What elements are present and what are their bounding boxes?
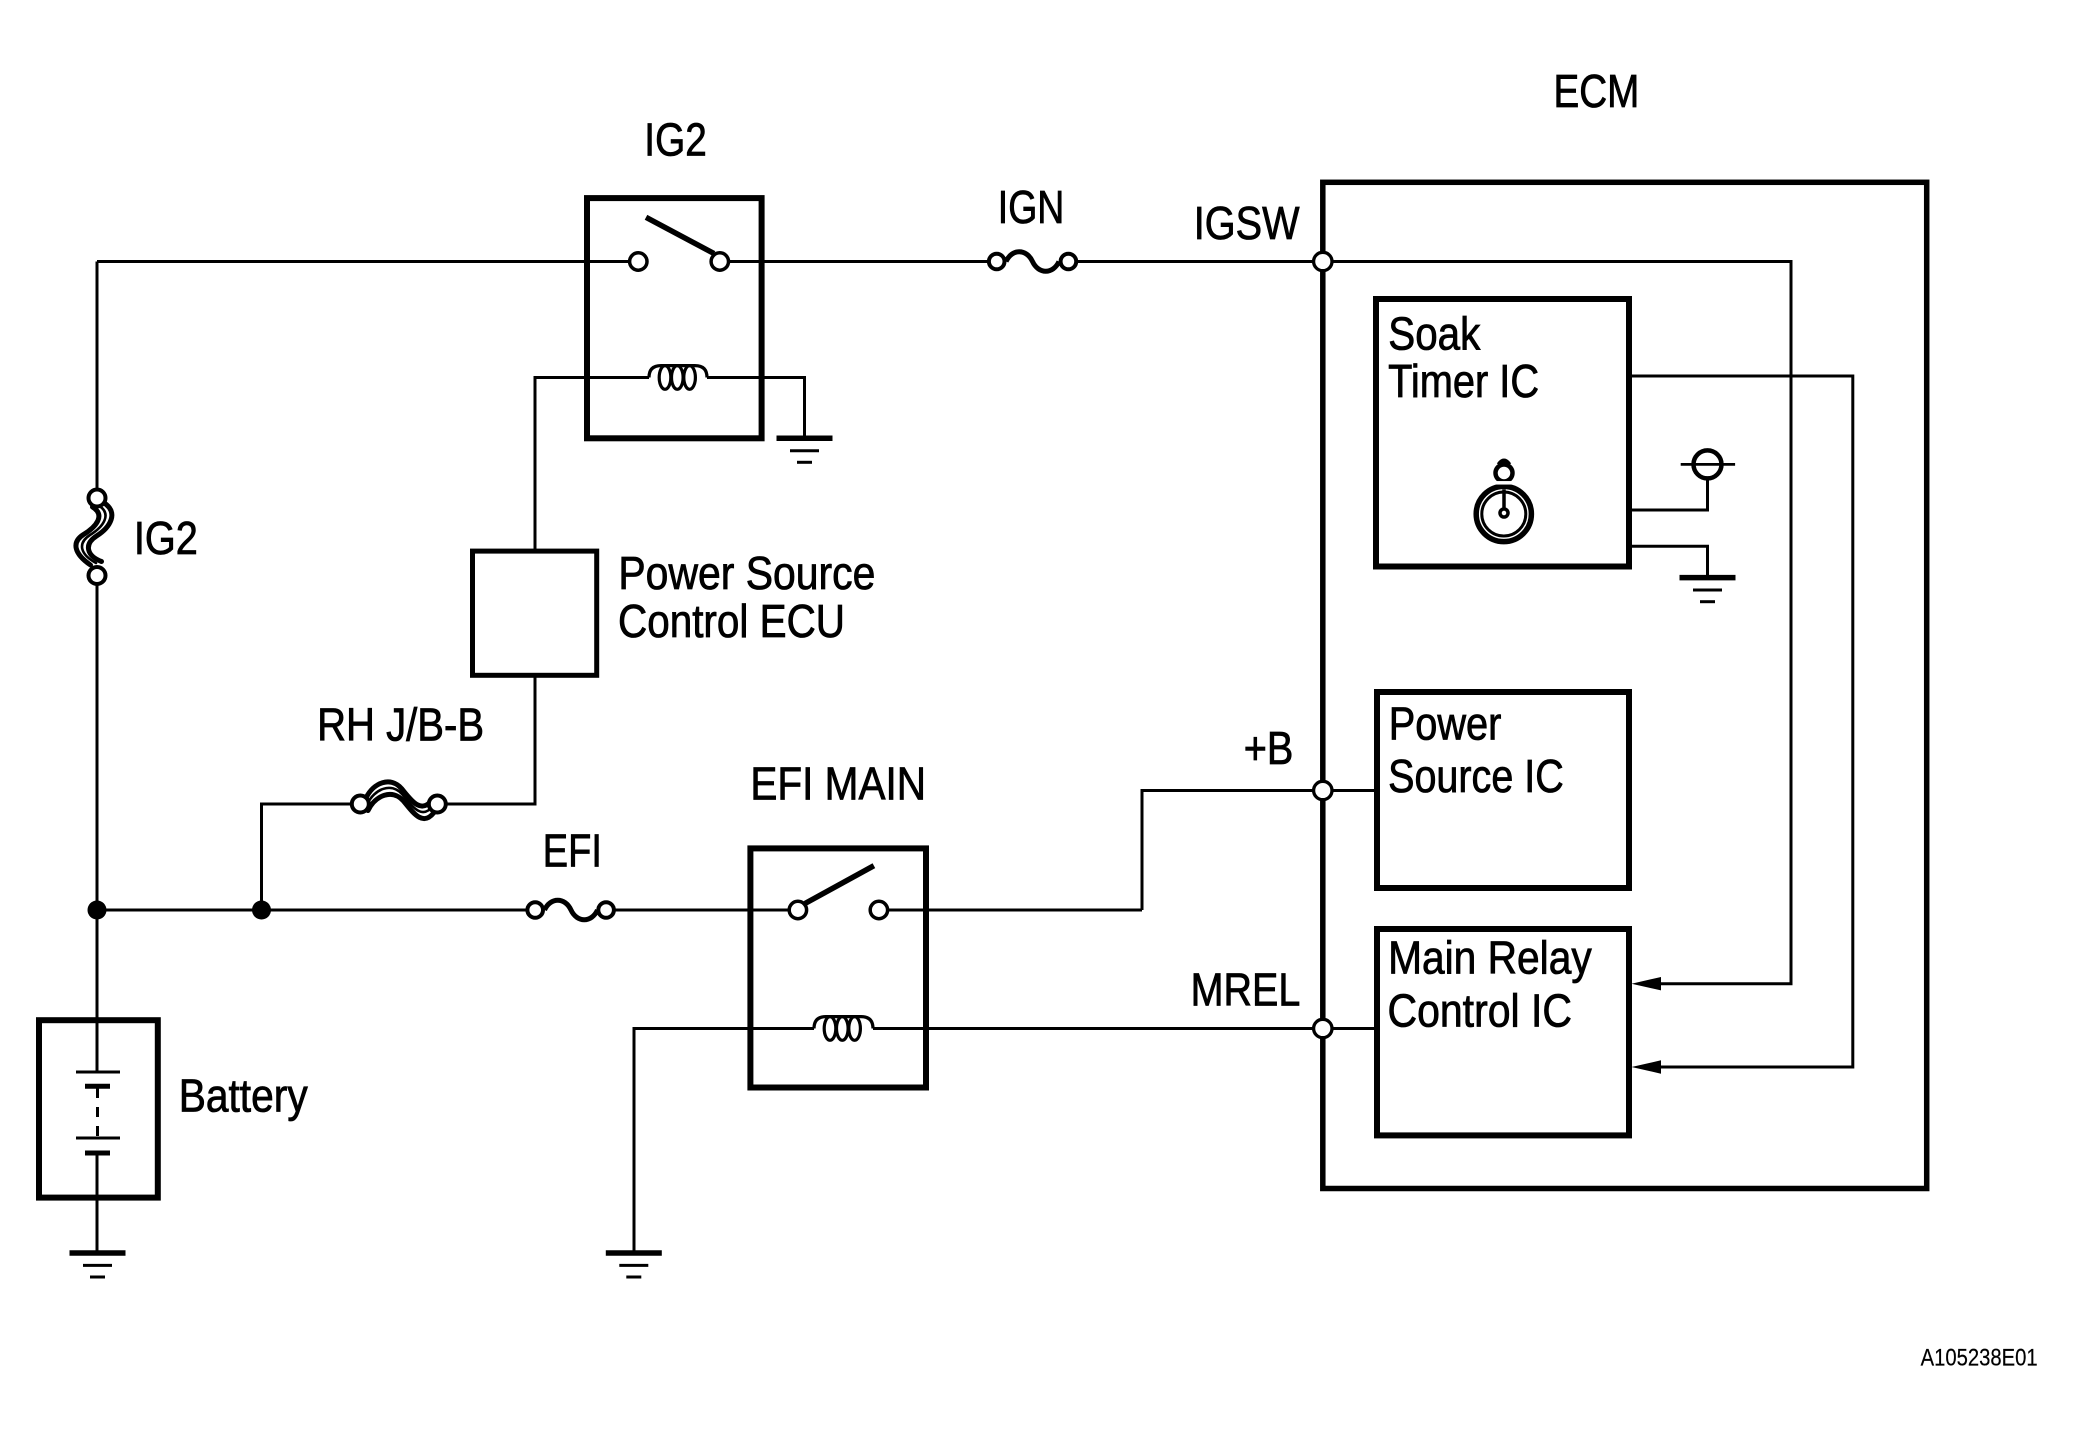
junction dot (left rail / battery bus) (88, 901, 107, 920)
wire top horizontal: left rail to IG2 relay left terminal (97, 260, 632, 263)
svg-text:EFI MAIN: EFI MAIN (750, 757, 926, 809)
svg-text:Source IC: Source IC (1388, 750, 1564, 802)
EFI fuse (545, 900, 598, 920)
wire RH J/B-B to Power Source Control ECU (447, 675, 535, 804)
wire bottom horizontal: battery rail to EFI fuse (97, 909, 530, 912)
Power Source Control ECU box (473, 551, 597, 675)
arrow into Main Relay Control IC (lower) (1632, 1060, 1662, 1073)
wire EFI MAIN relay right terminal toward +B (885, 909, 1142, 912)
svg-text:IGN: IGN (998, 181, 1065, 233)
wire IGSW inside ECM to Main Relay Control IC arrow (1322, 262, 1791, 984)
IGN fuse (1006, 252, 1059, 272)
wire Soak Timer IC to ground (1632, 546, 1708, 577)
svg-text:Main Relay: Main Relay (1388, 932, 1592, 984)
wire MREL line left to ground rail (634, 1029, 814, 1254)
RH J/B-B fusible link (horizontal) (366, 782, 434, 819)
svg-text:A105238E01: A105238E01 (1921, 1345, 2038, 1372)
wire left vertical rail (lower) (96, 584, 99, 1071)
svg-text:ECM: ECM (1554, 65, 1640, 117)
node MREL (1314, 1019, 1332, 1037)
Battery box (39, 1020, 158, 1197)
svg-text:MREL: MREL (1191, 964, 1301, 1016)
svg-text:EFI: EFI (543, 825, 602, 877)
ground (soak timer) (1680, 578, 1736, 602)
EFI MAIN relay switch blade (805, 866, 874, 904)
Main Relay Control IC box (1377, 929, 1629, 1135)
svg-text:IG2: IG2 (134, 512, 198, 564)
svg-text:Timer IC: Timer IC (1388, 355, 1539, 407)
wire left vertical rail (upper) (96, 262, 99, 491)
wire IGN fuse to IGSW node (1063, 260, 1322, 263)
ground (battery) (70, 1253, 126, 1277)
IG2 relay switch blade (646, 217, 714, 253)
wire Power Source Control ECU up to IG2 relay coil (535, 378, 649, 552)
Power Source IC box (1377, 692, 1629, 888)
svg-text:IG2: IG2 (644, 114, 707, 166)
IG2 relay coil (649, 366, 707, 390)
wire +B stub into Power Source IC (1322, 789, 1377, 792)
svg-text:Power: Power (1389, 698, 1502, 750)
junction dot (RH J/B-B branch) (252, 901, 271, 920)
arrow into Main Relay Control IC (upper) (1632, 977, 1662, 990)
wire IG2 relay coil to ground (707, 378, 805, 439)
wire RH J/B-B branch up from junction (262, 804, 352, 910)
svg-text:+B: +B (1244, 722, 1294, 774)
svg-text:Control ECU: Control ECU (618, 595, 845, 647)
ground (IG2 relay coil) (777, 438, 833, 462)
svg-text:RH J/B-B: RH J/B-B (317, 699, 484, 751)
wire riser to +B (1142, 791, 1322, 911)
EFI MAIN relay switch terminals (789, 901, 806, 918)
IG2 relay box (587, 198, 762, 438)
wire MREL coil to MREL node and stub into Main Relay Control IC (873, 1027, 1377, 1030)
wire EFI fuse to EFI MAIN relay left terminal (611, 909, 792, 912)
wire battery lower lead to ground (96, 1155, 99, 1253)
EFI MAIN relay coil (814, 1017, 873, 1041)
svg-text:IGSW: IGSW (1194, 197, 1300, 249)
wire Soak Timer IC output to Main Relay Control IC arrow (1629, 376, 1853, 1067)
terminal circle (sensor) beside Soak Timer IC (1694, 450, 1722, 478)
EFI MAIN relay box (750, 848, 926, 1087)
wire IG2 relay right terminal to IGN fuse (726, 260, 1002, 263)
wire Soak Timer IC to terminal circle (1632, 479, 1708, 510)
ECM box (1323, 182, 1927, 1188)
IG2 relay switch terminals (630, 253, 647, 270)
ground (EFI MAIN coil) (606, 1253, 662, 1277)
stopwatch icon in Soak Timer IC (1476, 461, 1531, 542)
svg-text:Soak: Soak (1388, 307, 1481, 359)
node IGSW (1314, 252, 1332, 270)
svg-text:Power Source: Power Source (618, 547, 875, 599)
svg-text:Battery: Battery (179, 1070, 309, 1122)
node +B (1314, 781, 1332, 799)
Soak Timer IC box (1376, 299, 1629, 567)
IG2 fusible link (vertical) (76, 503, 112, 566)
svg-text:Control IC: Control IC (1388, 984, 1573, 1036)
battery plates (76, 1072, 120, 1153)
